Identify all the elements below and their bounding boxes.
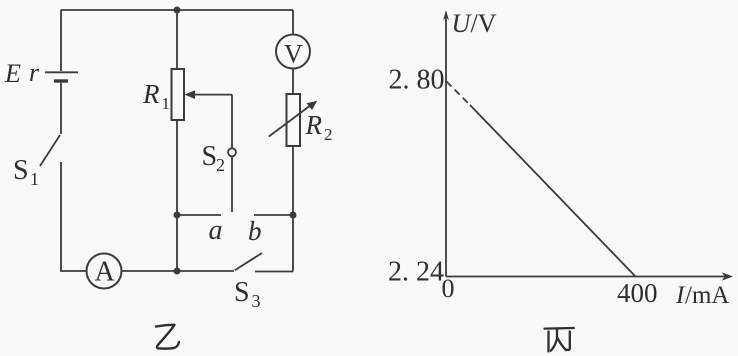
rheostat R2 [287,94,301,146]
node junction contact a [174,212,181,219]
svg-text:S: S [13,155,29,186]
wire middle branch lower [176,120,178,271]
graph solid line [470,105,636,277]
wire battery to S1 [60,83,62,134]
svg-text:/mA: /mA [685,282,729,309]
wire middle branch upper [176,10,178,69]
node junction contact b [290,212,297,219]
graph dashed segment [447,82,471,106]
svg-text:R: R [142,79,160,109]
svg-text:/V: /V [471,9,497,38]
wire top rail [61,9,293,11]
label U/V [452,9,497,38]
svg-text:0: 0 [442,274,455,303]
wire right branch lower [292,146,294,272]
contact a segment [177,214,221,216]
svg-text:A: A [95,257,116,288]
R2 arrow [269,101,318,137]
wire S2 stub down [231,156,233,212]
x-axis I/mA [446,272,733,280]
switch S3 fixed contact wire [255,271,293,273]
svg-text:U: U [452,9,473,38]
label R1 [142,79,170,113]
svg-text:2: 2 [216,155,225,175]
switch S1 blade [40,135,60,166]
label R2 [305,110,333,144]
svg-text:3: 3 [252,291,261,311]
wire bottom to S3 [177,270,234,272]
svg-text:S: S [234,277,250,308]
svg-text:r: r [29,58,40,87]
wire voltmeter to R2 [292,69,294,95]
node junction bottom-left [174,268,181,275]
wire right branch top [292,10,294,35]
svg-text:R: R [305,110,323,140]
svg-text:b: b [248,216,262,246]
label I/mA [675,282,729,309]
svg-text:1: 1 [30,169,39,189]
switch S2 contact circle [228,148,236,156]
R1 slider arrow [185,90,233,148]
node junction top [174,7,181,14]
svg-text:2. 80: 2. 80 [389,65,445,96]
svg-text:V: V [284,40,303,69]
ammeter A [87,254,122,289]
svg-text:2. 24: 2. 24 [388,256,444,287]
battery E r short plate [54,79,68,82]
label S3 [234,277,261,311]
switch S3 blade [235,253,262,270]
resistor R1 [172,69,185,120]
label S2 [202,141,226,175]
label S1 [13,155,39,189]
wire ammeter to node [122,270,178,272]
svg-text:E: E [4,59,21,88]
wire S1 to bottom-left corner [61,162,87,271]
battery E r long plate [45,71,78,73]
contact b segment [254,214,293,216]
y-axis U/V [443,10,449,277]
caption 丙 [545,328,574,352]
voltmeter V [276,35,310,69]
svg-text:1: 1 [162,94,171,113]
svg-text:2: 2 [324,125,333,144]
wire left branch upper [60,10,62,71]
svg-text:a: a [209,215,223,246]
caption 乙 [156,325,179,349]
svg-text:S: S [202,141,218,172]
svg-text:400: 400 [617,278,658,308]
